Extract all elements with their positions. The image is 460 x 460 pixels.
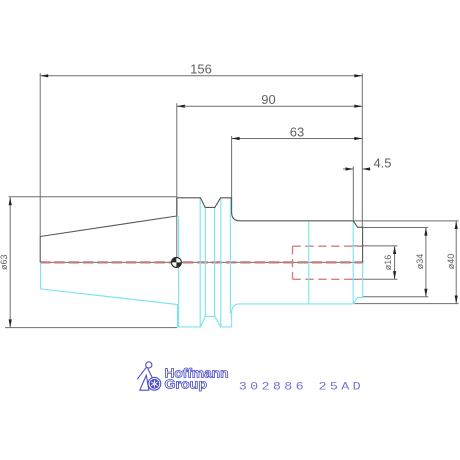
dimension dia34 arrow bottom: [424, 289, 427, 297]
extension line dia16 top: [352, 245, 398, 247]
cyan mirror vertical at groove right end: [220, 198, 222, 327]
dimension dia63 arrow top: [9, 197, 12, 205]
dimension dia16 vertical line: [394, 246, 396, 279]
body bottom half cyan profile: [41, 262, 363, 327]
dimension 4.5 line right part: [362, 168, 370, 170]
svg-text:ø16: ø16: [383, 255, 393, 271]
svg-text:ø40: ø40: [446, 254, 456, 270]
cyan mirror vertical at flange right face: [229, 198, 231, 314]
svg-text:ø63: ø63: [0, 254, 9, 270]
hidden bore dia16 left edge (red dashed): [292, 246, 294, 279]
svg-text:90: 90: [261, 92, 275, 107]
dimension dia40 arrow bottom: [455, 296, 458, 304]
extension line top for dia63: [9, 196, 177, 198]
datum point symbol on centerline: [171, 257, 181, 267]
dimension 156 arrow right: [354, 74, 362, 77]
dimension 4.5 line left part: [343, 168, 353, 170]
extension line dia16 bottom: [352, 278, 398, 280]
dimension dia63 vertical line: [9, 197, 11, 327]
dimension 90 arrow right: [354, 105, 362, 108]
dimension 4.5 arrow left (pointing right): [346, 167, 354, 170]
dimension 156 arrow left: [40, 74, 48, 77]
extension line left x=40 (for dim 156): [39, 73, 41, 237]
logo gear outer circle: [148, 377, 161, 390]
cyan vertical transition on cylinder: [308, 221, 310, 304]
svg-text:156: 156: [190, 62, 212, 77]
body top half outline: taper top edge: [40, 216, 177, 237]
extension line x=353.3 (for dim 4.5): [352, 166, 354, 220]
dimension 90 arrow left: [177, 105, 185, 108]
hidden bore dia16 top edge (red dashed): [293, 245, 363, 247]
dimension 156 line: [40, 75, 362, 77]
extension line x=176.8 (for dim 90): [176, 103, 178, 262]
extension line dia40 top: [353, 220, 458, 222]
dimension dia16 arrow bottom: [393, 271, 396, 279]
svg-text:ø34: ø34: [415, 254, 425, 270]
dimension dia16 arrow top: [393, 246, 396, 254]
Hoffmann Group logo icon: person head: [146, 362, 152, 368]
extension line bottom for dia63: [5, 327, 177, 329]
dimension 4.5 arrow right (pointing left): [362, 167, 370, 170]
logo gear filled rosette: [150, 379, 160, 389]
cyan mirror vertical at groove left start: [199, 198, 201, 327]
body top half outline: flange top, V-groove, right face, fillet, cylinder, chamfer, end cap, end face: [177, 198, 363, 263]
dimension 63 arrow right: [354, 137, 362, 140]
svg-text:4.5: 4.5: [373, 155, 391, 170]
logo triangle body: [140, 375, 149, 390]
dimension dia40 arrow top: [455, 221, 458, 229]
dimension dia63 arrow bottom: [9, 319, 12, 327]
dimension dia34 vertical line: [425, 228, 427, 297]
dimension dia34 arrow top: [424, 228, 427, 236]
svg-text:Group: Group: [165, 378, 208, 392]
dimension 63 line: [232, 138, 363, 140]
body top half outline: flange left face: [176, 198, 178, 216]
cyan mirror vertical at groove bottom left: [204, 207, 206, 316]
logo person arm line: [148, 368, 153, 378]
cyan mirror vertical at flange left face: [178, 216, 180, 327]
body top half outline: taper left face: [39, 237, 41, 263]
logo gear white asterisk: [151, 380, 158, 388]
svg-text:302886 25AD: 302886 25AD: [239, 380, 364, 393]
dimension 63 arrow left: [232, 137, 240, 140]
extension line x=231.6 (for dim 63): [231, 136, 233, 198]
svg-text:63: 63: [290, 124, 304, 139]
cyan vertical at chamfer start: [352, 221, 354, 304]
hidden bore dia16 bottom edge (red dashed): [293, 278, 363, 280]
centerline red dashed: [40, 261, 364, 263]
dimension 90 line: [177, 105, 362, 107]
extension line dia34 top: [363, 227, 428, 229]
extension line dia34 bottom: [363, 296, 429, 298]
cyan mirror vertical at groove bottom right: [214, 207, 216, 316]
dimension dia40 vertical line: [455, 221, 457, 304]
logo person back line: [137, 368, 146, 380]
extension line dia40 bottom: [354, 303, 458, 305]
extension line right x=362.3 (for dims 156/90/63/4.5): [361, 74, 363, 228]
centerline thin continuous line: [40, 261, 364, 263]
